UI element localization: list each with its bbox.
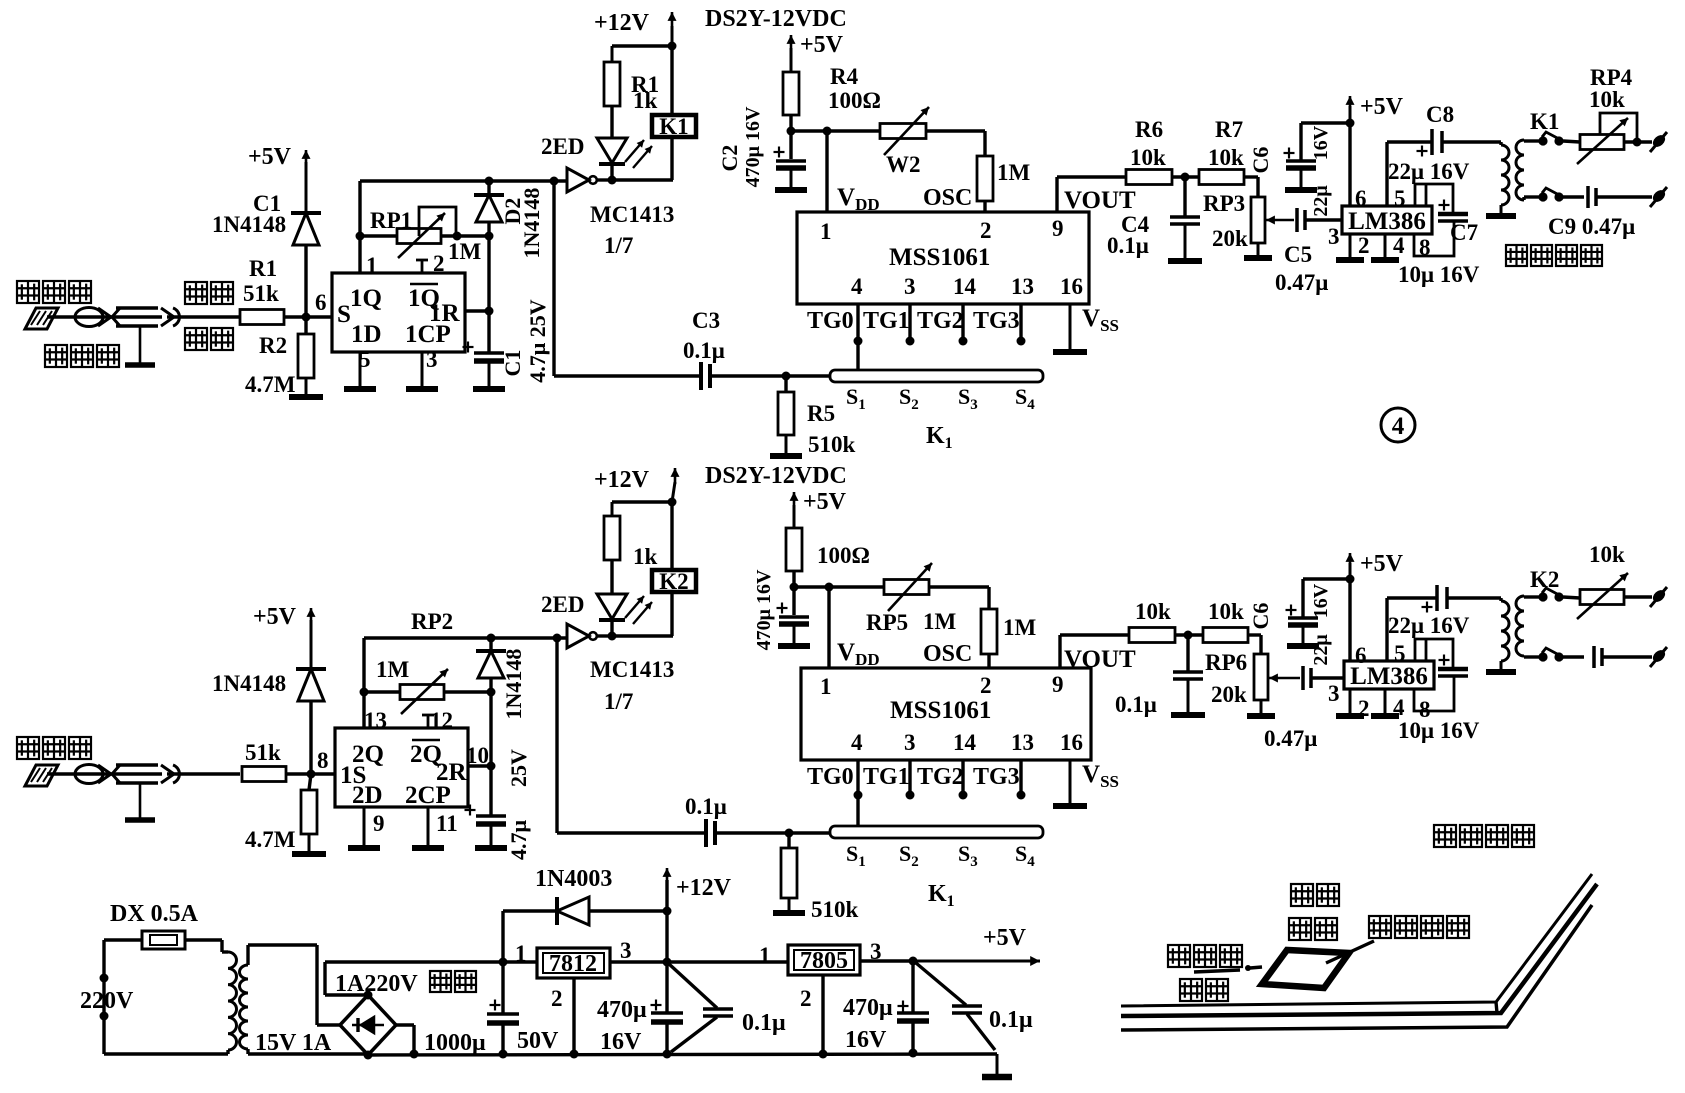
- svg-text:25V: 25V: [506, 749, 531, 787]
- transformer T1 primary: [1501, 142, 1509, 205]
- label RP6: [1205, 650, 1247, 675]
- label 16V rotated ch2: [1310, 583, 1332, 618]
- +12V supply psu: [663, 868, 732, 911]
- svg-text:W2: W2: [886, 152, 921, 177]
- svg-text:4: 4: [851, 274, 863, 299]
- wire C5 to LM386 pin3 ch2: [1311, 676, 1344, 679]
- svg-text:10μ 16V: 10μ 16V: [1398, 262, 1480, 287]
- svg-text:RP2: RP2: [411, 609, 453, 634]
- label 10u16V ch1: [1398, 262, 1480, 287]
- Vss pin ground ch1: [1053, 304, 1087, 352]
- svg-text:4: 4: [1393, 233, 1405, 258]
- svg-text:22μ 16V: 22μ 16V: [1388, 613, 1470, 638]
- svg-text:0.1μ: 0.1μ: [1115, 692, 1157, 717]
- svg-text:DS2Y-12VDC: DS2Y-12VDC: [705, 6, 847, 32]
- svg-text:TG3: TG3: [973, 308, 1020, 334]
- resistor R6b 10k: [1129, 628, 1175, 643]
- svg-text:R6: R6: [1135, 117, 1163, 142]
- svg-text:+5V: +5V: [803, 489, 847, 515]
- svg-text:R7: R7: [1215, 117, 1243, 142]
- svg-text:4: 4: [1392, 413, 1405, 440]
- wire inverter out / LED bottom ch2: [597, 620, 673, 641]
- pin numbers top ch1: [820, 216, 1064, 244]
- svg-text:4.7μ: 4.7μ: [506, 819, 531, 860]
- svg-text:C5: C5: [1284, 242, 1312, 267]
- capacitor C2 470u16V: [774, 131, 808, 190]
- pin5 ground ch1: [344, 347, 376, 389]
- svg-text:MC1413: MC1413: [590, 202, 674, 227]
- resistor R1b 51k: [242, 767, 286, 782]
- svg-text:MSS1061: MSS1061: [889, 244, 990, 271]
- wire bridge right to ground rail: [396, 1025, 419, 1059]
- wire R6-R7 ch1: [1172, 173, 1199, 182]
- svg-text:K1: K1: [659, 114, 688, 139]
- transformer T1 secondary: [1516, 140, 1524, 200]
- connector jack ch1: [161, 308, 186, 326]
- TG0 pin wire ch2: [854, 760, 863, 826]
- label 1k ch1: [633, 88, 658, 113]
- wire diode to node ch2: [309, 701, 312, 774]
- label MC1413 ch2: [590, 657, 674, 682]
- wire C3 to bus ch1: [710, 372, 830, 381]
- svg-text:1: 1: [820, 674, 832, 699]
- op-amp LM386 ch2 box: [1344, 661, 1434, 689]
- svg-text:16V: 16V: [1310, 125, 1332, 160]
- svg-text:4: 4: [1393, 695, 1405, 720]
- label 10k pot ch2: [1589, 542, 1625, 567]
- resistor 1M (osc) ch1: [926, 131, 993, 201]
- label 16V (12V): [600, 1029, 642, 1055]
- label R1: [249, 256, 277, 281]
- label 接送话器: [1506, 245, 1602, 266]
- svg-text:470μ 16V: 470μ 16V: [753, 569, 775, 650]
- svg-text:510k: 510k: [808, 432, 856, 457]
- svg-text:1k: 1k: [633, 88, 658, 113]
- pin 6 label ch1: [1355, 186, 1367, 211]
- svg-text:10: 10: [466, 743, 489, 768]
- keyboard panel line C: [1121, 905, 1592, 1030]
- svg-text:14: 14: [953, 274, 977, 299]
- label 16V (5V): [845, 1027, 887, 1053]
- label 4.7M ch2: [245, 827, 296, 852]
- transformer T2 primary ground: [1486, 661, 1516, 672]
- svg-text:+5V: +5V: [800, 32, 844, 58]
- pin numbers bottom ch1: [851, 274, 1083, 299]
- circled number 4: [1381, 408, 1415, 442]
- IC MSS1061 ch2 box: [801, 668, 1091, 760]
- resistor R5b 510k: [781, 833, 797, 898]
- svg-text:TG2: TG2: [917, 308, 964, 334]
- label RP1: [370, 208, 412, 233]
- wire RP right ch2: [444, 688, 496, 697]
- svg-text:470μ: 470μ: [843, 995, 893, 1021]
- svg-text:6: 6: [1355, 186, 1367, 211]
- svg-text:2: 2: [980, 218, 992, 243]
- label 20k ch1: [1212, 226, 1248, 251]
- capacitor C5b 0.47u: [1303, 666, 1311, 690]
- wire R to node ch2: [286, 770, 334, 779]
- svg-text:1/7: 1/7: [604, 233, 633, 258]
- svg-text:3: 3: [620, 938, 632, 963]
- wire C5 to LM386 pin3 ch1: [1305, 218, 1342, 221]
- svg-text:10μ 16V: 10μ 16V: [1398, 718, 1480, 743]
- capacitor 470u 16V (12V rail): [651, 962, 684, 1059]
- +5V supply arrow ch1: [248, 144, 311, 213]
- label K1 bus ch2: [928, 881, 955, 910]
- label LM386 ch1: [1348, 208, 1426, 235]
- wire diode to node ch1: [304, 245, 307, 317]
- svg-text:RP1: RP1: [370, 208, 412, 233]
- wire pin5 to C8 ch2: [1387, 598, 1437, 661]
- shielded cable ch1 (屏蔽线): [104, 308, 162, 326]
- keyboard panel line B: [1121, 884, 1597, 1016]
- svg-text:11: 11: [436, 811, 458, 836]
- wire C3 to bus ch2: [715, 829, 830, 838]
- label 10u16V ch2: [1398, 718, 1480, 743]
- +5V supply (R4): [787, 32, 844, 72]
- callout line to button: [1326, 941, 1374, 963]
- label 4.7M ch1: [245, 372, 296, 397]
- resistor R6 10k: [1126, 170, 1172, 185]
- svg-text:3: 3: [1328, 224, 1340, 249]
- label R6: [1135, 117, 1163, 142]
- capacitor C3b 0.1u: [706, 819, 715, 847]
- label 51k ch2: [245, 740, 281, 765]
- resistor R 1k ch2: [604, 516, 620, 560]
- capacitor C1b 4.7u25V: [465, 766, 507, 824]
- resistor R1 51k: [240, 310, 284, 325]
- svg-text:2D: 2D: [352, 782, 383, 809]
- wire to trigger control: [1194, 965, 1262, 972]
- svg-text:DX 0.5A: DX 0.5A: [110, 901, 199, 927]
- wire pin1 riser ch1: [358, 181, 361, 273]
- wire VOUT ch2: [1060, 635, 1129, 668]
- answer button key: [1262, 950, 1349, 988]
- label 0.47u (C5b): [1264, 726, 1317, 751]
- wire R7 to RP ch1: [1244, 177, 1258, 197]
- diode D1 1N4148 (clamp): [291, 213, 321, 245]
- pin5-C7 loop ch2: [1415, 639, 1453, 667]
- label 应答: [1291, 884, 1339, 906]
- svg-text:7812: 7812: [549, 951, 597, 977]
- label 1N4148 ch1: [212, 212, 286, 237]
- label 10k (R6b): [1135, 599, 1171, 624]
- svg-text:TG1: TG1: [863, 764, 910, 790]
- capacitor C6b 22u16V: [1286, 579, 1320, 646]
- svg-text:100Ω: 100Ω: [817, 543, 870, 568]
- pin8 loop ch2: [1414, 676, 1454, 711]
- label 1/7 ch2: [604, 689, 633, 714]
- ground C1b: [475, 824, 507, 848]
- wire R1k to LED ch1: [610, 106, 613, 138]
- svg-text:1k: 1k: [633, 544, 658, 569]
- label DS2Y-12VDC ch2: [705, 463, 847, 489]
- label Vss ch2: [1082, 761, 1119, 791]
- wire secondary bottom to bridge: [248, 1049, 368, 1054]
- capacitor C8b 22u16V: [1422, 585, 1448, 613]
- wire 1R to cap ch2: [468, 692, 496, 771]
- switch K2 lower: [1524, 648, 1584, 662]
- svg-text:1CP: 1CP: [405, 321, 451, 348]
- svg-text:+5V: +5V: [1360, 551, 1404, 577]
- label 470u16V rotated ch2: [753, 569, 775, 650]
- svg-text:C2: C2: [717, 145, 742, 172]
- svg-text:470μ 16V: 470μ 16V: [742, 106, 764, 187]
- label 0.1u (5V): [989, 1007, 1033, 1033]
- flip-flop IC U2 box: [335, 728, 468, 807]
- wire rail to pot ch2: [829, 585, 884, 588]
- wire to R 51k ch1: [186, 315, 240, 318]
- resistor R7b 10k: [1203, 628, 1248, 643]
- svg-text:1M: 1M: [997, 160, 1031, 185]
- pin numbers bottom ch2: [851, 730, 1083, 755]
- diode D2 1N4148: [474, 181, 504, 236]
- svg-text:50V: 50V: [517, 1028, 559, 1054]
- wire pin1 riser ch2: [362, 638, 365, 728]
- wire 1R to cap ch1: [465, 236, 494, 316]
- svg-text:7805: 7805: [800, 948, 848, 974]
- svg-text:8: 8: [317, 748, 329, 773]
- label R4: [830, 64, 859, 89]
- svg-text:13: 13: [1011, 274, 1034, 299]
- pin 8 label ch1: [1419, 235, 1431, 260]
- svg-text:22μ 16V: 22μ 16V: [1388, 159, 1470, 184]
- TG2 pin wire ch1: [959, 304, 968, 346]
- label 1M (osc R) ch2: [1003, 615, 1037, 640]
- capacitor 470u 16V (5V rail): [897, 961, 929, 1058]
- svg-text:5: 5: [359, 347, 371, 372]
- svg-text:1Q: 1Q: [350, 285, 382, 312]
- flip-flop IC U1 box: [332, 273, 465, 352]
- capacitor C1 4.7u25V: [463, 311, 505, 361]
- svg-text:0.1μ: 0.1μ: [683, 338, 725, 363]
- resistor R2b 4.7M: [301, 774, 317, 834]
- shield ground ch2: [125, 783, 155, 820]
- final ground: [982, 1054, 1012, 1077]
- keyboard panel edge: [1496, 1002, 1497, 1013]
- svg-text:RP3: RP3: [1203, 191, 1245, 216]
- svg-text:R5: R5: [807, 401, 835, 426]
- label Vss ch1: [1082, 305, 1119, 335]
- LED arrows ch1: [625, 140, 652, 168]
- label 220V: [80, 988, 134, 1014]
- label MSS1061 ch1: [889, 244, 990, 271]
- +5V output arrow: [860, 925, 1040, 966]
- pin 3 label ch1: [1328, 224, 1340, 249]
- capacitor 0.1u (5V rail): [916, 963, 995, 1050]
- capacitor C9 0.47u: [1588, 186, 1596, 208]
- svg-text:3: 3: [1328, 681, 1340, 706]
- pin 2 ground ch1: [1336, 233, 1370, 260]
- svg-text:51k: 51k: [245, 740, 281, 765]
- label 100ohm ch2: [817, 543, 870, 568]
- label 10k (R7b): [1208, 599, 1244, 624]
- label 0.1u (C3): [683, 338, 725, 363]
- output prong upper ch1: [1624, 132, 1667, 152]
- touch pad 2 (触摸板): [25, 765, 58, 786]
- svg-text:C3: C3: [692, 308, 720, 333]
- svg-text:1: 1: [820, 219, 832, 244]
- label 100ohm ch1: [828, 88, 881, 113]
- label C1 (cap) rotated: [500, 350, 525, 377]
- pin3 ground ch1: [406, 347, 438, 389]
- capacitor C6 22u16V: [1284, 123, 1318, 190]
- wire secondary top to bridge: [248, 945, 340, 1025]
- label DX 0.5A: [110, 901, 199, 927]
- svg-text:16V: 16V: [1310, 583, 1332, 618]
- wire C8 to transformer ch2: [1447, 596, 1501, 599]
- label 470u (5V): [843, 995, 893, 1021]
- svg-text:220V: 220V: [80, 988, 134, 1014]
- svg-text:0.1μ: 0.1μ: [1107, 233, 1149, 258]
- svg-text:4.7μ 25V: 4.7μ 25V: [525, 299, 550, 382]
- svg-text:100Ω: 100Ω: [828, 88, 881, 113]
- svg-text:C6: C6: [1248, 603, 1273, 630]
- wire inverter input drop ch1: [554, 181, 701, 376]
- 7812 pin2 ground wire: [570, 978, 579, 1059]
- +5V supply arrow ch2: [253, 604, 316, 669]
- pin 2 label ch1: [433, 251, 445, 276]
- pin 2 ground ch2: [1336, 689, 1370, 721]
- wire +5V to pin6 ch2: [1348, 579, 1351, 661]
- svg-text:2Q: 2Q: [352, 741, 384, 768]
- svg-text:1D: 1D: [351, 321, 382, 348]
- keyboard panel line A: [1121, 874, 1592, 1006]
- label 510k ch1: [808, 432, 856, 457]
- svg-text:+12V: +12V: [594, 10, 650, 36]
- pin5 ground ch2: [348, 807, 385, 848]
- ground RP ch1: [1244, 243, 1272, 258]
- svg-text:VOUT: VOUT: [1064, 646, 1136, 673]
- label 25V rotated ch2: [506, 749, 531, 787]
- wire pad to connector ch2: [47, 772, 75, 775]
- ground R5b: [773, 898, 805, 913]
- +12V supply ch1: [594, 10, 677, 46]
- svg-text:OSC: OSC: [923, 185, 972, 211]
- RP wiper arrow ch1: [1266, 216, 1294, 225]
- ground R5: [770, 435, 802, 456]
- capacitor C4 0.1u: [1168, 177, 1202, 261]
- svg-text:0.1μ: 0.1μ: [742, 1010, 786, 1036]
- svg-text:22μ: 22μ: [1310, 634, 1332, 666]
- svg-text:9: 9: [1052, 216, 1064, 241]
- svg-text:1N4148: 1N4148: [501, 649, 526, 720]
- svg-text:MC1413: MC1413: [590, 657, 674, 682]
- pin 4 ground ch1: [1371, 233, 1405, 260]
- svg-text:22μ: 22μ: [1310, 185, 1332, 217]
- RP1 wiper loop: [419, 207, 456, 236]
- IC2 pin names: [340, 740, 468, 809]
- svg-text:+5V: +5V: [983, 925, 1027, 951]
- potentiometer RP1 1M: [397, 213, 445, 258]
- capacitor C2b 470u16V: [777, 587, 811, 646]
- IC MSS1061 ch1 box: [797, 212, 1089, 304]
- potentiometer RP4 10k: [1577, 118, 1628, 164]
- svg-text:1M: 1M: [448, 239, 482, 264]
- pin 6 label ch2: [1355, 643, 1367, 668]
- RP4 wiper loop: [1600, 113, 1642, 147]
- touch pad 1 (触摸板): [25, 308, 58, 329]
- top wire ch1: [360, 177, 567, 186]
- label 触摸板 ch1: [17, 281, 91, 303]
- capacitor 1000u 50V: [487, 958, 519, 1059]
- svg-text:6: 6: [1355, 643, 1367, 668]
- pin numbers top ch2: [820, 672, 1064, 699]
- svg-text:16: 16: [1060, 730, 1083, 755]
- svg-text:+5V: +5V: [253, 604, 297, 630]
- svg-text:0.1μ: 0.1μ: [989, 1007, 1033, 1033]
- diode D1b 1N4148 (clamp): [296, 669, 326, 701]
- pin8 loop ch1: [1414, 221, 1454, 256]
- wire R to node ch1: [284, 313, 334, 322]
- top wire ch2: [364, 634, 567, 643]
- label C6 rotated: [1248, 147, 1273, 174]
- svg-text:2: 2: [1358, 696, 1370, 721]
- label 10k (R7): [1208, 145, 1244, 170]
- output prong lower ch1: [1596, 187, 1667, 207]
- transformer T2 secondary: [1516, 596, 1524, 656]
- svg-text:1N4148: 1N4148: [212, 671, 286, 696]
- capacitor C4b 0.1u: [1171, 635, 1205, 715]
- label 导电铜片: [1369, 916, 1469, 938]
- wire fuse to primary: [185, 940, 228, 952]
- resistor R4b 100ohm: [786, 528, 802, 571]
- wire C6 to +5V ch2: [1303, 575, 1355, 584]
- svg-text:OSC: OSC: [923, 641, 972, 667]
- resistor R2 4.7M: [298, 317, 314, 378]
- shielded cable ch2 (屏蔽线): [104, 765, 162, 783]
- label 4.7u 25V rotated ch1: [525, 299, 550, 382]
- svg-text:3: 3: [904, 730, 916, 755]
- svg-text:RP5: RP5: [866, 610, 908, 635]
- pin 1 label ch1: [366, 253, 378, 278]
- regulator 7805: [788, 945, 860, 975]
- svg-text:2CP: 2CP: [405, 782, 451, 809]
- svg-text:2: 2: [980, 673, 992, 698]
- svg-text:510k: 510k: [811, 897, 859, 922]
- svg-text:1M: 1M: [376, 657, 410, 682]
- label VOUT ch2: [1064, 646, 1136, 673]
- svg-text:9: 9: [1052, 672, 1064, 697]
- svg-text:1000μ: 1000μ: [424, 1030, 486, 1056]
- regulator 7812: [537, 948, 610, 978]
- svg-text:2ED: 2ED: [541, 134, 584, 159]
- wire R4 to rail ch1: [787, 115, 796, 136]
- svg-text:TG0: TG0: [807, 764, 854, 790]
- connector plug ch1: [75, 308, 111, 327]
- label 0.1u (C3b): [685, 794, 727, 819]
- ground RP ch2: [1247, 700, 1275, 716]
- label 1000u: [424, 1030, 486, 1056]
- inverter MC1413 ch1: [567, 168, 597, 192]
- svg-text:10k: 10k: [1130, 145, 1166, 170]
- labels S1-S4 ch2: [846, 841, 1035, 870]
- label 4.7u rotated ch2: [506, 819, 531, 860]
- label C3: [692, 308, 720, 333]
- label 0.47u (C5): [1275, 270, 1328, 295]
- connector jack ch2: [161, 765, 186, 783]
- wire inverter out / LED bottom ch1: [597, 164, 673, 185]
- label R5: [807, 401, 835, 426]
- pin3 ground ch2: [412, 807, 458, 848]
- label C6b rotated: [1248, 603, 1273, 630]
- svg-text:14: 14: [953, 730, 977, 755]
- ground rail psu: [368, 1054, 997, 1055]
- label 51k ch1: [243, 281, 279, 306]
- label 1/7 ch1: [604, 233, 633, 258]
- svg-text:20k: 20k: [1211, 682, 1247, 707]
- svg-text:+5V: +5V: [1360, 94, 1404, 120]
